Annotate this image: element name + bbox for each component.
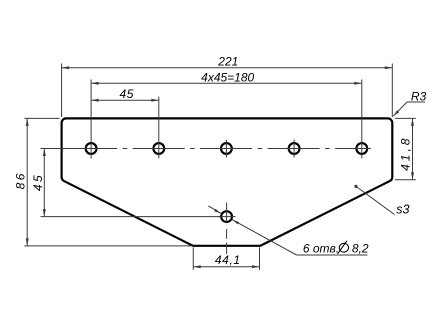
leader s3: [356, 186, 395, 214]
dimension line 41.8: [412, 118, 414, 179]
svg-text:8,2: 8,2: [352, 241, 369, 255]
svg-text:R3: R3: [411, 89, 427, 103]
dimension line 4x45=180: [91, 82, 362, 84]
extension line 86 top: [24, 117, 59, 119]
extension line 44.1 right: [259, 247, 261, 270]
hole 3: [221, 143, 232, 154]
svg-text:45: 45: [31, 173, 45, 191]
vertical centerline lower hole: [226, 203, 228, 223]
leader R3: [407, 101, 425, 103]
extension line hole 1: [90, 80, 92, 159]
svg-text:4x45=180: 4x45=180: [201, 71, 254, 85]
extension line 86 bottom: [24, 245, 192, 247]
hole 4: [289, 143, 300, 154]
diameter symbol: [338, 241, 350, 254]
dimension line 221: [62, 67, 393, 69]
extension line 44.1 left: [192, 247, 194, 270]
center tick lower hole horizontal: [218, 216, 236, 218]
hole 5: [356, 143, 367, 154]
extension line 41.8 bottom: [395, 179, 416, 181]
hole 1: [86, 143, 97, 154]
horizontal centerline through hole row: [77, 148, 372, 150]
hole 2: [153, 143, 164, 154]
svg-text:221: 221: [217, 54, 238, 68]
leader 6 holes dia 8.2: [208, 206, 221, 214]
part outline (plate): [62, 118, 393, 245]
dimension line 44.1: [193, 266, 259, 268]
svg-text:86: 86: [13, 171, 27, 189]
extension line left edge (221): [61, 64, 63, 118]
hole 6 (lower): [221, 211, 232, 222]
extension line 45-left top: [41, 148, 79, 150]
dimension line 86: [26, 118, 28, 245]
svg-text:6 отв.: 6 отв.: [303, 241, 339, 255]
svg-text:45: 45: [120, 87, 134, 101]
dimension line 45 left: [43, 149, 45, 217]
center tick hole 3: [225, 140, 227, 158]
extension line hole 5: [361, 80, 363, 159]
svg-text:41,8: 41,8: [398, 136, 412, 171]
extension line 45-left bottom: [41, 216, 221, 218]
dimension line 45 top: [91, 99, 159, 101]
svg-text:s3: s3: [396, 202, 409, 216]
extension line 41.8 top: [395, 117, 416, 119]
extension line right edge (221): [391, 64, 393, 118]
center tick hole 4: [293, 140, 295, 158]
svg-text:44,1: 44,1: [215, 253, 241, 267]
extension line hole 2: [158, 97, 160, 159]
